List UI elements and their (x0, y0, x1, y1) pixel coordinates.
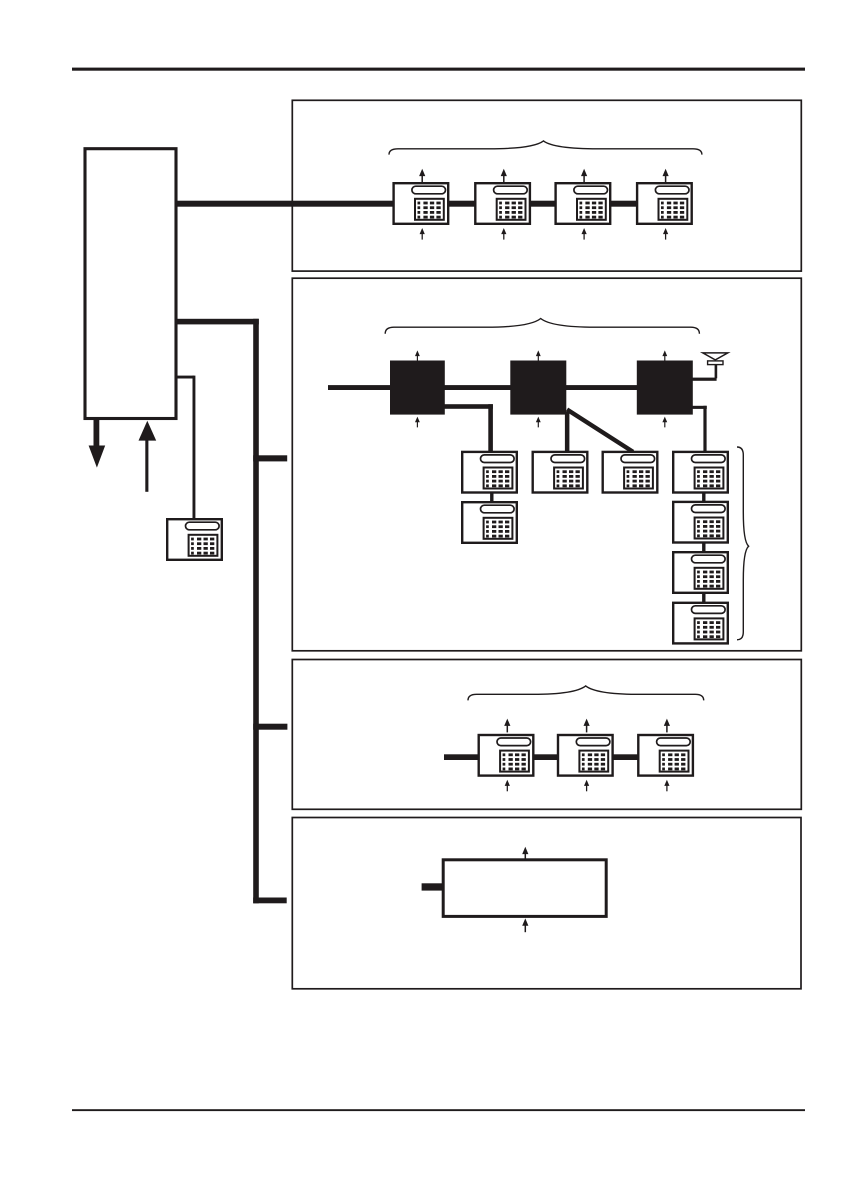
phone 1-4 (637, 183, 692, 224)
wire: module2 drop vertical (565, 412, 570, 451)
brace over box3 phones (468, 686, 704, 701)
outgoing line arrow (thick, down) (94, 419, 100, 448)
single phone under KSU (167, 519, 222, 560)
arrow above auxiliary unit (522, 847, 528, 861)
wire: module1 drop horizontal (445, 404, 493, 409)
wire: speaker to module3 horizontal (692, 378, 717, 381)
wire: stub into auxiliary unit (422, 883, 444, 890)
arrows below modules (415, 417, 420, 428)
module 3 (black box) (637, 361, 693, 415)
arrows above box1 phones (419, 169, 425, 183)
wire: speaker drop vertical (715, 365, 718, 379)
wire: module2 diagonal drop to phone C (567, 410, 633, 452)
paging speaker horn (703, 353, 728, 360)
phone 1-3 (556, 183, 611, 224)
header rule (72, 68, 805, 71)
box 4 frame (auxiliary equipment group) (292, 818, 801, 989)
wire: bus into module 1 (328, 385, 391, 390)
wire: station bus from KSU to box1 phones (176, 201, 393, 207)
module 2 (black box) (510, 361, 566, 415)
arrows below box3 phones (505, 780, 510, 792)
wire: stub to box3 (253, 724, 287, 730)
phone 2-D3 (673, 552, 728, 593)
wire: bus into phone 3-1 (444, 754, 478, 760)
wire: thin line to single phone, vertical (193, 376, 196, 519)
wire: module3 drop vertical (703, 406, 706, 452)
wire: bus segment 3-2 to 3-3 (613, 754, 637, 760)
wire: thin line from KSU to single phone, horizontal (176, 376, 194, 379)
wire: bus segment P2-P3 (531, 201, 555, 207)
wire: trunk riser vertical (253, 319, 259, 904)
box 1 frame (phone group 1) (292, 100, 801, 271)
vertical brace right of D column (737, 447, 749, 640)
phone 3-3 (638, 735, 693, 776)
brace over box1 phones (389, 141, 702, 155)
phone 3-1 (479, 735, 534, 776)
box 3 frame (phone group 2) (292, 660, 801, 810)
arrows below box1 phones (420, 228, 425, 240)
arrow below auxiliary unit (522, 918, 528, 932)
arrows above modules (415, 350, 420, 361)
wire: module3 drop horizontal (692, 406, 707, 409)
phone 2-C (603, 452, 658, 493)
box 2 frame (expansion modules group) (292, 278, 801, 651)
phone 3-2 (558, 735, 613, 776)
phone 2-A2 (462, 502, 517, 543)
wire: bus module2-module3 (566, 385, 637, 390)
phone 2-B (533, 452, 588, 493)
phone 1-1 (394, 183, 449, 224)
wire: D3 to D4 (702, 594, 705, 603)
phone 2-A1 (462, 452, 517, 493)
phone 2-D1 (673, 452, 728, 493)
phone 2-D2 (673, 502, 728, 543)
wire: D1 to D2 (702, 493, 705, 501)
phone 2-D4 (673, 603, 728, 644)
arrows above box3 phones (504, 719, 510, 733)
wire: bus segment P1-P2 (449, 201, 475, 207)
wire: bus segment 3-1 to 3-2 (534, 754, 557, 760)
wire: stub to box2 (253, 455, 287, 461)
paging speaker body (708, 361, 723, 365)
wire: trunk riser horizontal from KSU (176, 319, 259, 325)
wire: bus segment P3-P4 (611, 201, 636, 207)
wire: stub to box4 (253, 898, 287, 904)
auxiliary unit box (443, 860, 606, 917)
footer rule (72, 1109, 805, 1111)
phone 1-2 (475, 183, 530, 224)
module 1 (black box) (390, 361, 445, 415)
wire: D2 to D3 (702, 543, 705, 551)
incoming line arrow (thin, up) (145, 440, 148, 492)
wire: A1 to A2 (490, 493, 493, 501)
brace over box2 modules (385, 319, 699, 334)
main unit (KSU) box (85, 149, 176, 419)
wire: module1 drop vertical (488, 404, 493, 452)
wire: bus module1-module2 (445, 385, 511, 390)
